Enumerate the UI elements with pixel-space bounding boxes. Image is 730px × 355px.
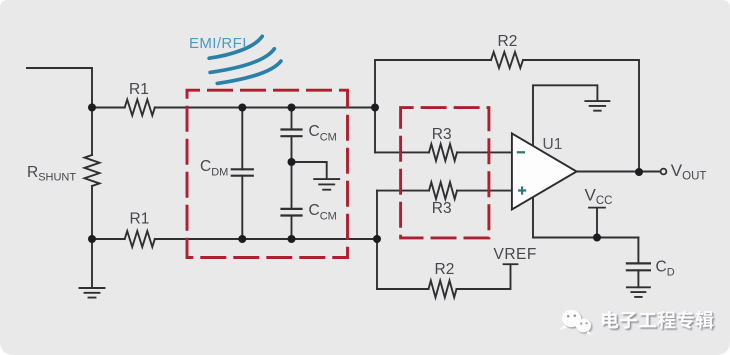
svg-text:EMI/RFI: EMI/RFI [189,35,247,52]
svg-text:R1: R1 [129,81,149,98]
svg-text:R2: R2 [435,261,455,278]
svg-text:R2: R2 [498,33,518,50]
svg-text:U1: U1 [543,136,563,153]
svg-text:R3: R3 [432,126,452,143]
svg-text:VREF: VREF [494,246,537,263]
svg-text:R1: R1 [130,211,150,228]
svg-text:R3: R3 [432,200,452,217]
